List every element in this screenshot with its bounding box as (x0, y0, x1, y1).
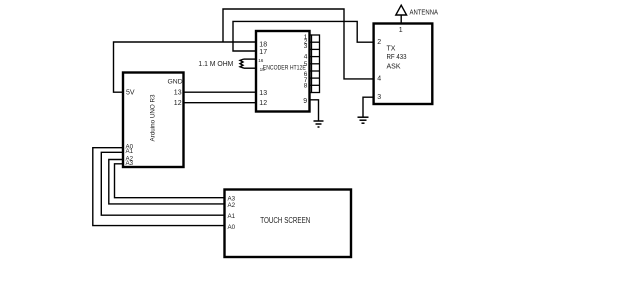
svg-text:TX: TX (387, 46, 396, 53)
svg-text:3: 3 (304, 43, 308, 50)
svg-text:A1: A1 (126, 148, 134, 155)
svg-text:5V: 5V (126, 89, 135, 96)
svg-text:A2: A2 (228, 202, 236, 209)
svg-text:ENCODER HT12E: ENCODER HT12E (263, 66, 306, 72)
svg-text:TOUCH SCREEN: TOUCH SCREEN (260, 216, 310, 225)
svg-text:13: 13 (259, 90, 267, 97)
svg-text:12: 12 (174, 100, 182, 107)
encoder HT12E U1 body (256, 31, 310, 112)
wire 5V net branch: junction to TX pin 4 (223, 9, 374, 79)
wire encoder pin 15 stub (244, 67, 256, 69)
svg-text:5: 5 (304, 61, 308, 68)
wire Arduino A0 to touch screen A0 (93, 148, 225, 226)
svg-text:ASK: ASK (387, 64, 401, 71)
svg-text:1.1 M OHM: 1.1 M OHM (198, 59, 233, 68)
resistor R1 1.1M zigzag (240, 59, 244, 68)
svg-text:8: 8 (304, 82, 308, 89)
touch screen module body (225, 190, 352, 258)
svg-text:1: 1 (399, 27, 403, 34)
svg-text:Arduino UNO R3: Arduino UNO R3 (150, 94, 157, 141)
wire Arduino 13 to encoder 13 (184, 91, 257, 93)
svg-text:13: 13 (174, 89, 182, 96)
wire TX pin 3 to ground (363, 97, 374, 116)
svg-text:A3: A3 (126, 160, 134, 167)
svg-text:4: 4 (377, 75, 381, 82)
wire Arduino A3 to touch screen A3 (115, 164, 225, 198)
svg-text:A1: A1 (228, 213, 236, 220)
svg-text:2: 2 (377, 39, 381, 46)
svg-text:15: 15 (260, 67, 266, 72)
ground symbol under encoder (314, 121, 324, 127)
wire encoder pin 17 to TX pin 2 (233, 21, 374, 51)
svg-text:ANTENNA: ANTENNA (410, 9, 439, 16)
svg-text:16: 16 (258, 58, 264, 63)
svg-text:GND: GND (168, 79, 183, 86)
svg-text:17: 17 (259, 49, 267, 56)
wire Arduino A1 to touch screen A1 (101, 152, 224, 215)
wire encoder pin 16 stub (244, 58, 257, 60)
ground symbol under TX module (358, 117, 369, 123)
svg-text:18: 18 (259, 41, 267, 48)
wire Arduino A2 to touch screen A2 (109, 160, 225, 204)
TX RF433 module U3 body (374, 24, 433, 105)
svg-text:3: 3 (377, 94, 381, 101)
antenna symbol (396, 5, 407, 23)
svg-text:4: 4 (304, 53, 308, 60)
svg-text:12: 12 (259, 100, 267, 107)
wire 5V net: Arduino 5V to encoder pin 18 (114, 42, 257, 92)
svg-text:RF 433: RF 433 (387, 54, 407, 61)
Arduino UNO R3 module U2 body (123, 73, 184, 168)
wire Arduino 12 to encoder 12 (184, 102, 257, 104)
svg-text:A0: A0 (228, 224, 236, 231)
svg-text:9: 9 (303, 98, 307, 105)
DIP switch ladder on encoder pins 1-8 (310, 35, 320, 93)
wire encoder pin 9 to ground (310, 100, 319, 121)
